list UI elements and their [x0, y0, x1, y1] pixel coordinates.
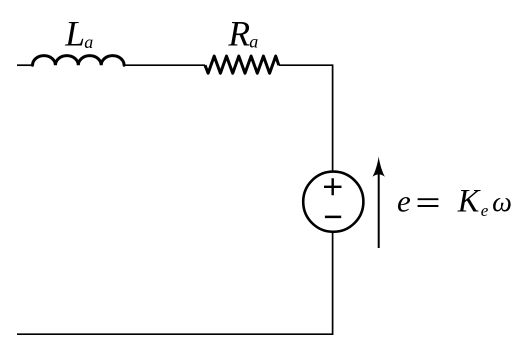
svg-text:K: K	[457, 183, 481, 219]
svg-text:e: e	[397, 184, 411, 219]
svg-text:a: a	[249, 32, 258, 52]
svg-text:a: a	[84, 32, 93, 52]
svg-text:R: R	[227, 14, 250, 54]
svg-text:e: e	[481, 201, 489, 220]
svg-text:ω: ω	[492, 187, 512, 218]
svg-text:L: L	[64, 14, 85, 54]
